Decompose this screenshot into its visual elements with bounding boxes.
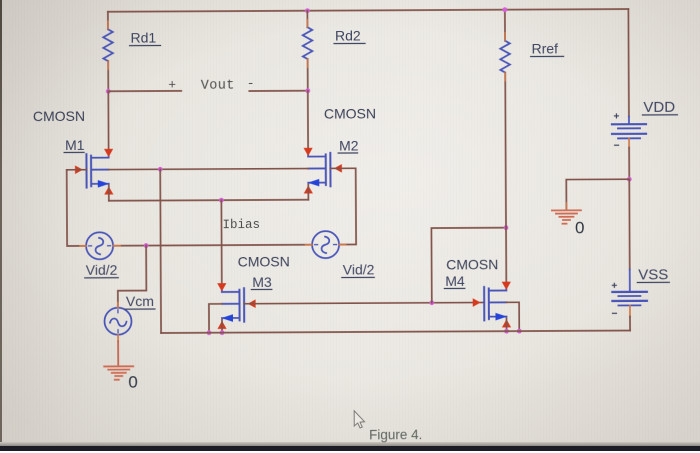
source Vcm (VSIN vertical) xyxy=(104,303,131,342)
wire Rd2 top lead xyxy=(306,11,308,27)
svg-text:M3: M3 xyxy=(252,274,272,290)
svg-text:Vcm: Vcm xyxy=(126,293,154,309)
M2 gate pin arrow xyxy=(334,164,342,173)
label VSS xyxy=(637,266,669,283)
M2 drain stub xyxy=(308,153,326,156)
wire bulk rail M1-M2 xyxy=(109,169,308,170)
transistor M1 (NMOS CMOSN) xyxy=(75,149,114,195)
M4 bulk stub xyxy=(489,301,507,303)
M1 gate pin arrow xyxy=(75,165,83,174)
transistor M2 (NMOS CMOSN, mirrored) xyxy=(303,148,342,194)
M4 source stub xyxy=(489,316,507,318)
wire source rail M1-M2 xyxy=(109,200,308,201)
M1 source pin arrow xyxy=(104,186,113,194)
wire M1 drain vertical xyxy=(107,91,109,149)
wire bulk tap vertical to bottom rail xyxy=(159,169,162,333)
M3 drain pin arrow xyxy=(217,283,226,291)
svg-text:Vout: Vout xyxy=(201,79,235,94)
label M3 xyxy=(251,274,272,290)
svg-text:Vid/2: Vid/2 xyxy=(86,262,118,278)
resistor Rref xyxy=(500,41,510,73)
label VDD xyxy=(642,99,677,116)
- mark xyxy=(612,312,616,314)
wire M3 source to rail xyxy=(221,320,223,333)
svg-text:+: + xyxy=(168,77,176,92)
svg-text:CMOSN: CMOSN xyxy=(238,253,290,269)
wire Vout+ stub xyxy=(108,90,181,92)
wire gate rail M3-M4 xyxy=(244,302,484,303)
M2 source arrow (blue) xyxy=(308,179,320,187)
M3 source arrow (blue) xyxy=(221,314,233,322)
wire M2 drain vertical xyxy=(307,91,309,149)
transistor M3 (NMOS CMOSN, mirrored) xyxy=(217,283,256,329)
M1 gate bar xyxy=(85,154,87,187)
label Rd1 xyxy=(129,29,160,45)
ground 0 (left) xyxy=(104,366,133,379)
svg-text:Figure 4.: Figure 4. xyxy=(369,427,422,442)
node M4 source rail dot xyxy=(504,329,509,334)
label M2 xyxy=(338,137,359,153)
node M3 bulk rail dot xyxy=(207,330,212,335)
node VDD ground tap dot xyxy=(627,177,632,182)
M1 bulk stub xyxy=(91,169,109,171)
label M1 xyxy=(64,137,85,153)
wire top rail VDD xyxy=(108,9,628,12)
svg-text:CMOSN: CMOSN xyxy=(324,105,376,121)
svg-text:Vid/2: Vid/2 xyxy=(343,261,375,277)
wire bottom rail (VSS) xyxy=(161,331,630,333)
wire M4 drain vertical xyxy=(505,228,507,284)
node Rd2 top junction dot xyxy=(305,8,310,13)
node Vout+ junction dot xyxy=(106,89,111,94)
transistor M4 (NMOS CMOSN) xyxy=(473,282,512,328)
node Vout- junction dot xyxy=(305,88,310,93)
source Vid/2 left (VSIN) xyxy=(80,232,120,259)
wire left branch vertical to Vid/2 xyxy=(67,170,86,246)
M3 channel bar xyxy=(238,290,240,321)
svg-text:M4: M4 xyxy=(445,273,465,289)
wire ground branch xyxy=(566,179,629,210)
source Vid/2 right (VSIN) xyxy=(306,231,346,258)
M2 channel bar xyxy=(325,154,327,185)
node Vcm junction dot xyxy=(144,243,149,248)
svg-text:-: - xyxy=(247,76,255,91)
node Rref-M4 drain dot xyxy=(504,225,509,230)
svg-text:Ibias: Ibias xyxy=(222,218,260,232)
M2 gate bar xyxy=(329,153,331,186)
wire VDD right column (top rail to VDD battery) xyxy=(627,9,630,116)
label Rd2 xyxy=(334,27,365,43)
wire Rd2 bottom lead to node Vout- xyxy=(307,59,309,91)
label Vid/2 right xyxy=(342,261,375,277)
+ mark xyxy=(612,283,616,287)
node bulk tap junction dot xyxy=(158,167,163,172)
wire Rref bottom lead xyxy=(504,72,507,227)
svg-text:M2: M2 xyxy=(339,137,359,153)
M2 bulk stub xyxy=(308,167,326,169)
mouse cursor xyxy=(354,411,364,428)
wire M2 source down xyxy=(307,184,309,199)
svg-text:Rref: Rref xyxy=(532,40,559,56)
wire M4 bulk to rail xyxy=(506,302,519,331)
M4 gate bar xyxy=(483,287,485,320)
wire VSS to bottom rail xyxy=(629,317,631,331)
node Ibias junction dot xyxy=(219,198,224,203)
M3 source stub xyxy=(222,317,240,319)
M2 drain pin arrow xyxy=(303,148,312,156)
label Vcm xyxy=(125,293,155,309)
M4 source arrow (blue) xyxy=(495,313,507,321)
svg-text:CMOSN: CMOSN xyxy=(446,256,498,272)
label Vid/2 left xyxy=(85,262,119,278)
wire VDD to VSS column xyxy=(628,179,630,269)
wire M1 gate lead from left branch xyxy=(67,169,87,171)
M2 source pin arrow xyxy=(304,185,313,193)
ground 0 (right) xyxy=(552,210,581,223)
wire M2 gate lead xyxy=(330,168,356,244)
wire Rd1 bottom lead to node Vout+ xyxy=(107,61,109,91)
resistor Rd2 xyxy=(303,27,313,59)
M1 source arrow (blue) xyxy=(98,180,110,188)
M3 bulk stub xyxy=(222,303,240,305)
svg-text:0: 0 xyxy=(575,218,585,237)
wire VDD minus down to ground tap xyxy=(628,148,630,180)
M3 gate bar xyxy=(243,288,245,321)
M3 drain stub xyxy=(222,289,240,292)
battery VDD xyxy=(612,114,646,148)
+ mark xyxy=(614,114,618,118)
node M4 bulk rail dot xyxy=(517,329,522,334)
svg-text:0: 0 xyxy=(128,373,138,392)
svg-text:Rd1: Rd1 xyxy=(130,30,156,46)
node M3 source rail dot xyxy=(220,330,225,335)
wire Vcm to ground xyxy=(117,341,119,366)
resistor Rd1 xyxy=(103,29,113,61)
node Rref top dot xyxy=(502,7,507,12)
node gate rail tap dot xyxy=(429,300,434,305)
svg-text:M1: M1 xyxy=(65,137,85,153)
wire mirror link up and right to Rref node xyxy=(431,228,506,303)
svg-text:VSS: VSS xyxy=(638,266,668,283)
M4 gate pin arrow xyxy=(473,298,481,307)
M3 source pin arrow xyxy=(217,321,226,329)
M1 drain pin arrow xyxy=(104,149,113,157)
svg-text:VDD: VDD xyxy=(643,99,675,116)
M1 source stub xyxy=(91,183,109,185)
wire pin lead tints (orange) xyxy=(108,18,566,212)
svg-text:Rd2: Rd2 xyxy=(335,27,361,43)
wire Vid rail between sources xyxy=(113,245,312,246)
M4 source pin arrow xyxy=(502,319,511,327)
- mark xyxy=(615,144,619,146)
wire Ibias vertical to M3 drain xyxy=(220,200,222,285)
M1 channel bar xyxy=(90,156,92,187)
wire M4 source to rail xyxy=(505,318,507,331)
M4 channel bar xyxy=(488,288,490,319)
wire M1 source down xyxy=(108,185,110,200)
resistor Rref top lead xyxy=(504,10,506,41)
wire Rd1 top lead xyxy=(107,12,109,29)
label Rref xyxy=(531,40,564,56)
svg-text:CMOSN: CMOSN xyxy=(33,108,85,124)
label M4 xyxy=(444,273,465,289)
wire M3 bulk to rail xyxy=(209,304,222,333)
wire Vcm branch xyxy=(118,246,147,308)
M3 gate pin arrow xyxy=(248,299,256,308)
M2 source stub xyxy=(308,182,326,184)
battery VSS xyxy=(612,269,647,316)
wire Vout- stub xyxy=(249,90,307,92)
M1 drain stub xyxy=(91,154,109,157)
M4 drain pin arrow xyxy=(502,282,511,290)
M4 drain stub xyxy=(489,287,507,290)
